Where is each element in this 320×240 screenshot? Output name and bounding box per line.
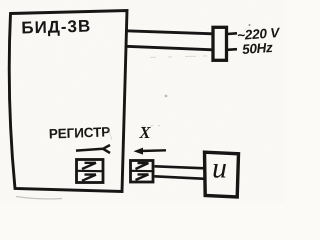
scan specks bottom <box>142 125 160 127</box>
connector (РЕГИСТР) body <box>77 160 104 183</box>
stub to 50Hz <box>227 48 237 51</box>
output fork arrow (РЕГИСТР) <box>76 145 110 153</box>
svg-text:и: и <box>212 152 227 185</box>
connector (РЕГИСТР) slash top <box>82 163 96 169</box>
wire mains top <box>126 31 213 34</box>
scan smudge top right of РЕГИСТР <box>108 128 112 140</box>
block БИД-3В outline <box>9 11 127 192</box>
connector X slash top <box>136 163 149 169</box>
block И <box>205 152 239 197</box>
connector X slash bottom <box>136 174 149 180</box>
stub to ~220V <box>227 32 237 35</box>
svg-text:БИД-3В: БИД-3В <box>21 17 91 38</box>
connector (РЕГИСТР) slash bottom <box>82 175 96 181</box>
wire mains bottom <box>126 46 213 50</box>
connector X divider <box>131 170 155 173</box>
plug connector X1 <box>213 27 227 60</box>
scan smudge bottom left <box>16 197 62 199</box>
arrow X (points left) <box>140 149 166 152</box>
connector X body <box>131 161 154 183</box>
scan specks row <box>150 56 207 58</box>
connector (РЕГИСТР) divider <box>77 170 104 173</box>
wire to И top <box>155 166 206 168</box>
svg-text:РЕГИСТР: РЕГИСТР <box>49 124 111 141</box>
wire to И bottom <box>155 176 206 179</box>
svg-text:50Hz: 50Hz <box>242 40 274 57</box>
scan speck <box>165 95 168 98</box>
